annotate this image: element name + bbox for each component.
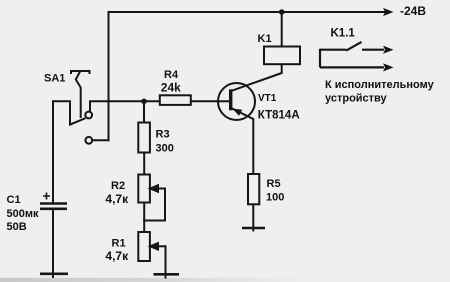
VT1 emitter arrow (PNP, pointing to base) [232,109,242,116]
R2 wiper arrow [150,185,165,191]
K1.1 blade [346,42,362,51]
SA1 actuator [71,71,90,118]
wire R2 wiper to divider tap [144,189,165,221]
svg-text:300: 300 [156,143,174,155]
wire relay bottom to collector [232,64,282,91]
ground R1 wiper [154,273,180,276]
svg-text:4,7к: 4,7к [105,192,129,206]
R1 wiper arrow [150,243,165,249]
K1.1 upper arrowhead [383,46,394,54]
K1.1 lower line [320,66,384,68]
svg-text:50В: 50В [7,221,27,233]
svg-text:24k: 24k [161,80,181,94]
SA1 upper contact stub [89,102,91,112]
wire C1 bottom to ground [52,209,54,277]
capacitor C1 [40,204,67,209]
svg-text:КТ814А: КТ814А [258,109,300,121]
wire R5 to ground [252,204,254,230]
wire R3 top stub [143,101,145,122]
wire R4 to base [191,100,229,102]
wire vertical from rail to SA1 lower contact [108,12,110,140]
wire R3 to R2 [143,153,145,175]
svg-text:K1.1: K1.1 [331,27,356,39]
svg-text:SA1: SA1 [44,73,65,85]
svg-text:K1: K1 [258,33,272,45]
svg-text:-24В: -24В [400,4,426,18]
wire B: switch to R4 [90,100,160,102]
K1.1 upper line [320,49,346,51]
svg-text:R3: R3 [156,129,170,141]
relay K1 coil [264,47,300,65]
wire relay K1 top feed [281,12,283,47]
arrow -24V rail [383,8,394,16]
wire R2 to R1 [143,203,145,233]
ground C1 [40,272,68,275]
svg-text:К исполнительному: К исполнительному [325,79,435,91]
wire R1 wiper to ground [165,246,167,277]
svg-text:100: 100 [266,192,284,204]
resistor R4 [160,95,191,105]
wire A: C1 top to blade corner [53,100,70,102]
wire top rail [109,11,385,13]
svg-text:R5: R5 [267,178,281,190]
SA1 upper contact [85,112,92,119]
svg-text:R1: R1 [112,238,126,250]
wire C1 branch down [52,101,54,202]
svg-text:500мк: 500мк [7,208,39,220]
resistor R5 [248,174,259,204]
svg-text:C1: C1 [7,194,21,206]
potentiometer R1 [138,232,150,261]
SA1 blade [70,102,85,124]
K1.1 lower arrowhead [383,63,394,71]
potentiometer R2 [138,175,150,203]
ground R5 [242,227,265,230]
transistor VT1 [218,83,255,120]
svg-text:R2: R2 [111,180,125,192]
svg-text:VT1: VT1 [258,93,277,104]
VT1 base bar [229,89,232,110]
scan shadow bottom [0,278,310,282]
relay contact K1.1 [320,42,384,68]
SA1 lower contact [85,137,92,144]
svg-text:R4: R4 [164,69,179,81]
node: R3 junction dot [141,99,147,105]
resistor R3 [138,123,150,153]
wire emitter to R5 [232,108,254,174]
K1.1 upper arrow line [362,49,384,51]
svg-text:устройству: устройству [325,93,388,105]
switch SA1 [70,71,92,144]
C1 plus sign [43,193,50,200]
svg-text:4,7к: 4,7к [105,249,129,263]
wire SA1 lower contact to vertical [93,139,109,141]
node: rail junction dot [279,9,285,15]
K1.1 bracket [319,49,321,68]
